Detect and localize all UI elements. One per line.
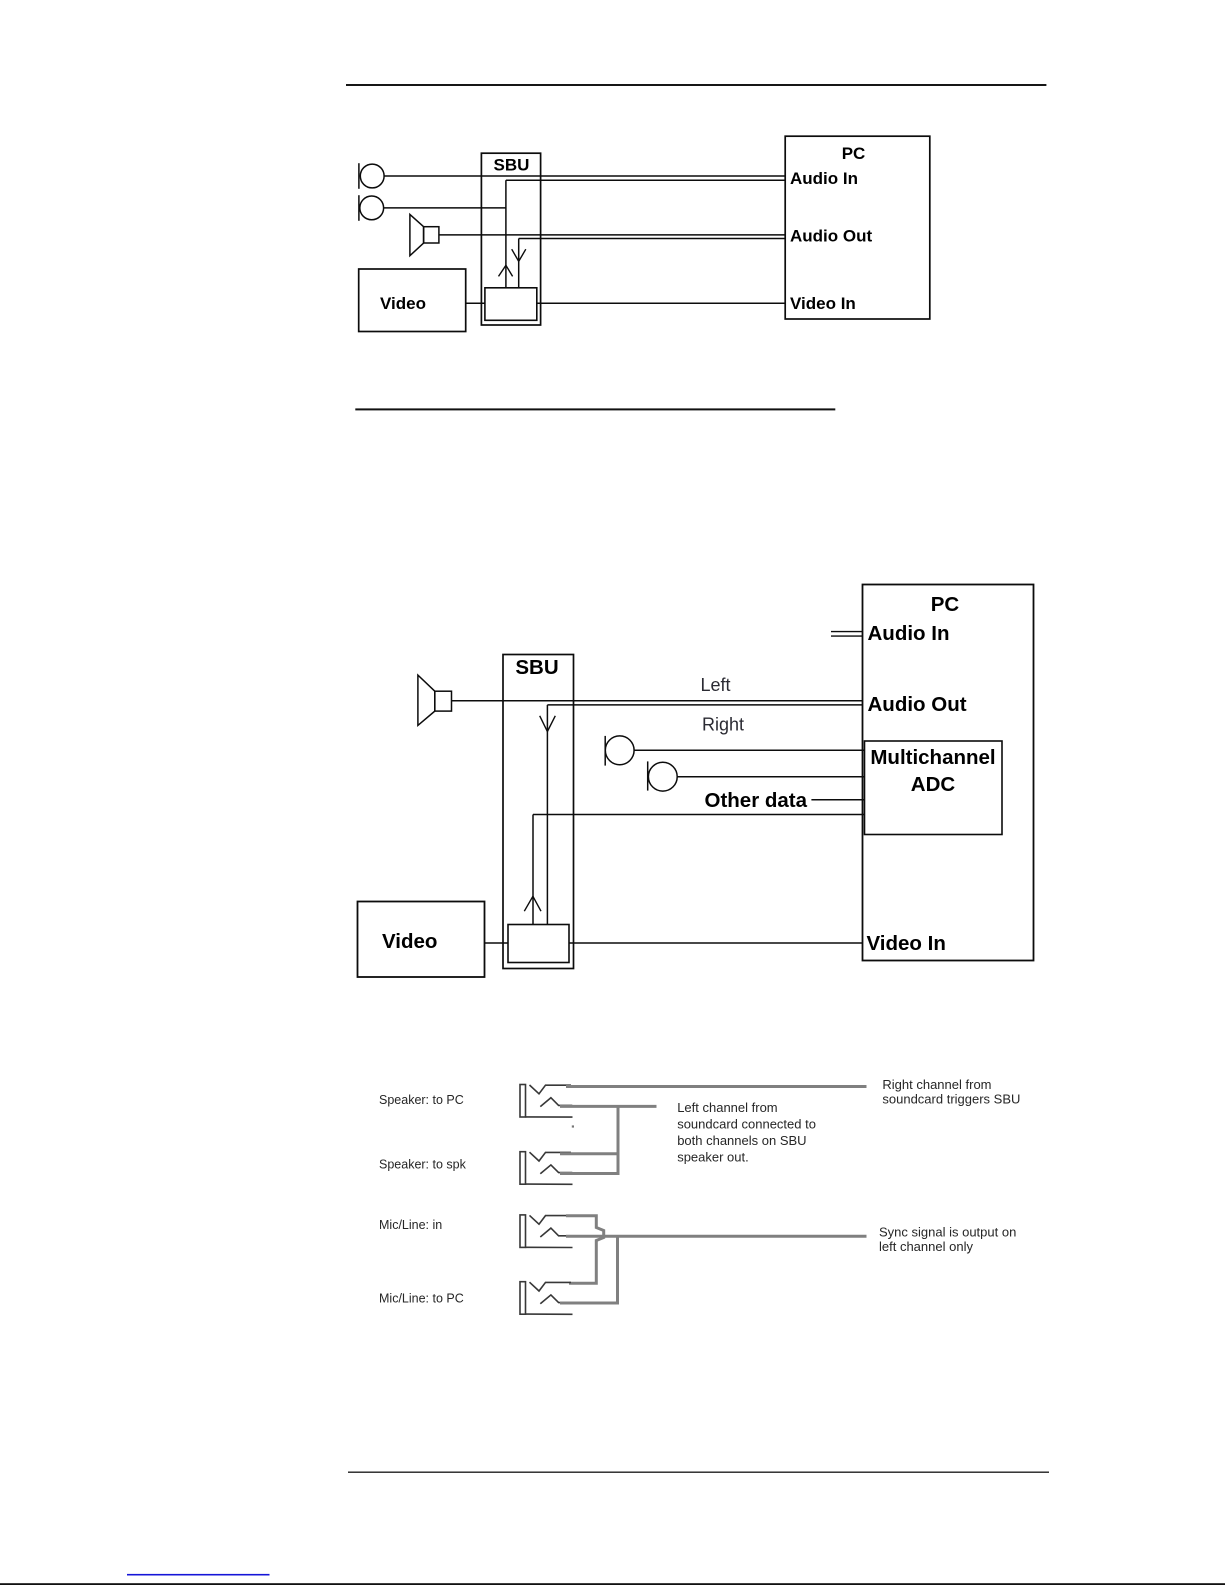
stray dot — [572, 1125, 574, 1127]
SBU box (diagram 1) — [481, 153, 540, 325]
sync box inside SBU (diagram 1) — [485, 288, 537, 321]
svg-text:Audio Out: Audio Out — [790, 227, 872, 246]
svg-text:Right: Right — [702, 715, 744, 735]
microphone M2 (diagram 1) — [360, 196, 384, 220]
svg-text:Audio Out: Audio Out — [868, 693, 967, 716]
wire J1 tip to Right-channel note — [566, 1085, 867, 1088]
wire speaker to PC Audio Out (Left, upper) — [452, 700, 863, 702]
arrow down on V1 — [540, 716, 556, 732]
speaker LS1 (diagram 1) — [410, 214, 424, 255]
wire mic M4 to ADC — [677, 776, 864, 778]
wire SBU to PC Audio Out (lower) — [547, 704, 862, 706]
jack J3 Mic/Line: in — [520, 1215, 573, 1248]
svg-text:Video: Video — [380, 294, 426, 313]
arrow up on V2 — [524, 896, 541, 911]
wire J2 ring to vertical — [560, 1172, 618, 1175]
svg-text:Left: Left — [701, 675, 731, 695]
wire sync box to PC Video In (diagram 2) — [569, 942, 863, 944]
rule above footer — [348, 1472, 1049, 1473]
svg-text:Speaker: to spk: Speaker: to spk — [379, 1158, 467, 1172]
jack J2 Speaker: to spk — [520, 1152, 573, 1185]
wire mic M2 to SBU — [384, 207, 506, 209]
wire vertical sync to J4 ring — [616, 1235, 619, 1305]
svg-text:Audio In: Audio In — [790, 169, 858, 188]
rule under diagram 1 — [355, 408, 835, 410]
Multichannel ADC box (diagram 2) — [865, 741, 1003, 835]
wire Video box to sync box — [466, 302, 485, 304]
svg-text:Multichannel: Multichannel — [870, 746, 995, 769]
svg-text:both channels on SBU: both channels on SBU — [677, 1133, 806, 1148]
svg-text:soundcard triggers SBU: soundcard triggers SBU — [882, 1092, 1020, 1107]
jack J4 Mic/Line: to PC — [520, 1282, 573, 1315]
svg-text:SBU: SBU — [515, 656, 558, 679]
wire SBU internal vertical B (diagram 1) — [518, 239, 520, 288]
wire speaker to PC Audio Out (upper) — [439, 234, 785, 236]
wire sync box to PC Video In — [537, 302, 785, 304]
wire sync signal (J3 ring) to note — [566, 1235, 867, 1238]
svg-text:PC: PC — [842, 144, 866, 163]
svg-text:PC: PC — [931, 593, 960, 616]
wire Other data stub to ADC — [811, 799, 864, 801]
wire J1 ring stub — [560, 1105, 657, 1108]
footnote link line — [127, 1574, 270, 1576]
microphone M3 (diagram 2) — [605, 736, 634, 765]
wire SBU internal vertical V2 (diagram 2) — [532, 815, 534, 925]
microphone M4 (diagram 2) — [648, 762, 677, 791]
arrow up on vertical A — [499, 265, 513, 276]
wire Video box to sync box (diagram 2) — [485, 942, 509, 944]
svg-text:Left channel from: Left channel from — [677, 1100, 777, 1115]
page bottom border — [0, 1583, 1225, 1585]
wire mic M3 to ADC (Right) — [634, 749, 864, 751]
speaker LS2 (diagram 2) — [418, 675, 435, 725]
sync box inside SBU (diagram 2) — [508, 925, 569, 963]
wire J3 tip crossover to J4 tip — [566, 1216, 604, 1283]
jack J1 Speaker: to PC — [520, 1085, 573, 1118]
svg-text:left channel only: left channel only — [879, 1239, 973, 1254]
wire J4 ring to vertical — [560, 1302, 618, 1305]
Video box (diagram 2) — [358, 902, 485, 978]
svg-text:Speaker: to PC: Speaker: to PC — [379, 1093, 464, 1107]
stub PC Audio In double line (diagram 2) — [831, 631, 863, 633]
wire SBU internal vertical V1 (diagram 2) — [546, 705, 548, 925]
microphone M1 (diagram 1) — [360, 164, 384, 188]
wire vertical J1 ring to J2 — [617, 1105, 620, 1175]
arrow down on vertical B — [512, 249, 526, 261]
svg-text:Mic/Line: in: Mic/Line: in — [379, 1218, 442, 1232]
PC box (diagram 2) — [863, 585, 1034, 961]
svg-text:Video In: Video In — [790, 294, 856, 313]
wire SBU internal vertical A (diagram 1) — [505, 180, 507, 288]
wire SBU to PC Audio In (lower) — [506, 179, 785, 181]
svg-text:Other data: Other data — [705, 789, 808, 812]
top rule — [346, 84, 1046, 86]
SBU box (diagram 2) — [503, 655, 574, 969]
wire SBU to PC Audio Out (lower) — [519, 238, 786, 240]
svg-text:Mic/Line: to PC: Mic/Line: to PC — [379, 1292, 464, 1306]
svg-text:SBU: SBU — [494, 156, 530, 175]
svg-text:Video: Video — [382, 930, 437, 953]
wire SBU to Multichannel ADC (bottom input) — [533, 814, 865, 816]
svg-text:Sync signal is output on: Sync signal is output on — [879, 1224, 1016, 1239]
wire J2 tip to vertical — [560, 1152, 618, 1155]
wire mic M1 to PC Audio In (upper) — [384, 175, 785, 177]
svg-text:soundcard connected to: soundcard connected to — [677, 1117, 816, 1132]
svg-text:Right channel from: Right channel from — [882, 1077, 991, 1092]
svg-text:Video In: Video In — [867, 932, 946, 955]
svg-text:Audio In: Audio In — [868, 622, 950, 645]
svg-text:speaker out.: speaker out. — [677, 1149, 749, 1164]
Video box (diagram 1) — [359, 269, 466, 332]
PC box (diagram 1) — [785, 136, 930, 319]
svg-text:ADC: ADC — [911, 773, 956, 796]
